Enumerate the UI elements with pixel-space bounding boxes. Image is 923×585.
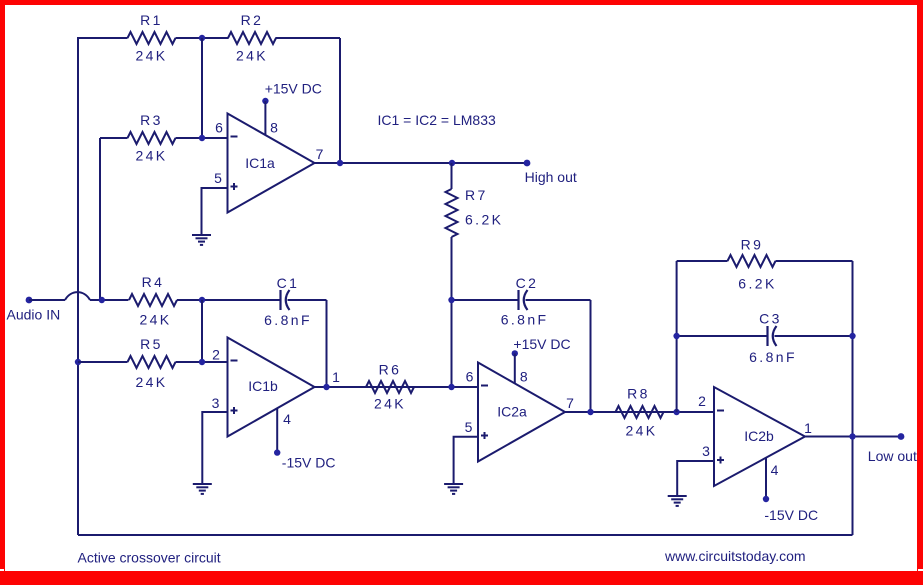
wire left rail xyxy=(77,38,79,535)
node Low out feedback junction xyxy=(849,433,855,439)
wire xyxy=(776,260,853,262)
svg-text:1: 1 xyxy=(804,420,812,436)
svg-text:24K: 24K xyxy=(135,48,167,64)
op-amp IC1a xyxy=(228,114,315,213)
wire xyxy=(451,237,453,387)
svg-text:IC1b: IC1b xyxy=(248,378,278,394)
resistor R3 xyxy=(128,132,176,144)
capacitor C3 xyxy=(766,326,768,346)
svg-text:IC2b: IC2b xyxy=(744,428,774,444)
svg-text:R6: R6 xyxy=(379,362,402,378)
capacitor C1 xyxy=(279,290,281,310)
resistor R9 xyxy=(728,255,776,267)
wire IC1b output to IC2a xyxy=(315,386,479,388)
svg-text:Audio IN: Audio IN xyxy=(7,307,61,323)
svg-text:8: 8 xyxy=(520,368,528,384)
resistor R7 xyxy=(446,189,458,237)
svg-text:6: 6 xyxy=(466,369,474,385)
resistor R2 xyxy=(228,32,276,44)
wire pin8 xyxy=(264,101,266,135)
svg-text:3: 3 xyxy=(702,443,710,459)
svg-text:-15V DC: -15V DC xyxy=(764,507,818,523)
svg-text:R9: R9 xyxy=(741,237,764,253)
svg-text:R5: R5 xyxy=(140,336,163,352)
resistor R5 xyxy=(128,356,176,368)
node Audio IN terminal xyxy=(26,297,33,304)
wire IC1a pin5 xyxy=(202,188,228,235)
wire xyxy=(201,38,203,138)
wire hop over left rail xyxy=(65,292,90,300)
node feedback to R5 xyxy=(75,359,81,365)
node IC1a inverting input xyxy=(199,135,205,141)
wire IC1b pin3 xyxy=(202,412,227,484)
svg-text:R3: R3 xyxy=(140,112,163,128)
node IC2b inverting input xyxy=(673,409,679,415)
wire xyxy=(451,163,453,189)
svg-text:Active crossover circuit: Active crossover circuit xyxy=(78,550,221,566)
wire xyxy=(676,261,678,412)
svg-text:+15V DC: +15V DC xyxy=(265,81,322,97)
wire xyxy=(339,38,341,163)
wire xyxy=(176,37,229,39)
svg-text:24K: 24K xyxy=(135,148,167,164)
svg-text:6.8nF: 6.8nF xyxy=(501,312,549,328)
wire xyxy=(77,37,128,39)
node R4 junction xyxy=(199,297,205,303)
resistor R1 xyxy=(128,32,176,44)
wire xyxy=(288,299,327,301)
wire xyxy=(176,137,228,139)
svg-text:24K: 24K xyxy=(625,423,657,439)
node R1-R2 junction xyxy=(199,35,205,41)
svg-text:R7: R7 xyxy=(465,187,488,203)
svg-text:8: 8 xyxy=(270,120,278,136)
wire bottom rail xyxy=(78,534,853,536)
node Low out terminal xyxy=(898,433,905,440)
ground IC1b pin3 xyxy=(193,484,212,494)
wire IC2a output xyxy=(565,411,714,413)
svg-text:+15V DC: +15V DC xyxy=(513,336,570,352)
wire xyxy=(100,137,128,139)
wire xyxy=(176,361,228,363)
op-amp IC2b xyxy=(714,387,805,486)
node C3 right junction xyxy=(849,333,855,339)
svg-text:24K: 24K xyxy=(135,374,167,390)
svg-text:24K: 24K xyxy=(139,312,171,328)
svg-text:5: 5 xyxy=(214,170,222,186)
svg-text:High out: High out xyxy=(525,169,577,185)
svg-text:IC1 = IC2 = LM833: IC1 = IC2 = LM833 xyxy=(378,112,497,128)
wire IC1a output xyxy=(315,162,528,164)
svg-text:2: 2 xyxy=(212,347,220,363)
wire xyxy=(326,300,328,387)
svg-text:3: 3 xyxy=(212,395,220,411)
wire xyxy=(677,335,768,337)
svg-text:6.2K: 6.2K xyxy=(738,276,776,292)
svg-text:R4: R4 xyxy=(142,274,165,290)
node C1 feedback junction xyxy=(323,384,329,390)
wire xyxy=(526,299,591,301)
node R7 junction xyxy=(449,160,455,166)
svg-text:R1: R1 xyxy=(140,12,163,28)
svg-text:6.2K: 6.2K xyxy=(465,212,503,228)
node High out terminal xyxy=(524,160,531,167)
node feedback junction xyxy=(337,160,343,166)
svg-text:-15V DC: -15V DC xyxy=(282,455,336,471)
svg-text:4: 4 xyxy=(771,462,779,478)
node -15V supply IC1b pin4 xyxy=(274,449,280,455)
wire IC2b pin4 xyxy=(765,458,767,499)
svg-text:1: 1 xyxy=(332,369,340,385)
resistor R8 xyxy=(616,406,664,418)
node R7-C2 junction xyxy=(448,297,454,303)
svg-text:C2: C2 xyxy=(516,275,539,291)
ground IC1a pin5 xyxy=(192,235,211,245)
ground IC2a pin5 xyxy=(444,484,463,494)
svg-text:R8: R8 xyxy=(627,386,650,402)
node +15V supply IC2a pin8 xyxy=(512,350,518,356)
node C2 feedback junction xyxy=(587,409,593,415)
wire IC2a pin5 xyxy=(454,437,478,484)
wire right rail xyxy=(852,261,854,535)
svg-text:5: 5 xyxy=(465,419,473,435)
wire xyxy=(590,300,592,412)
svg-text:2: 2 xyxy=(698,393,706,409)
wire xyxy=(452,299,519,301)
svg-text:Low out: Low out xyxy=(868,448,917,464)
svg-text:24K: 24K xyxy=(236,48,268,64)
resistor R4 xyxy=(129,294,177,306)
op-amp IC1b xyxy=(228,338,315,437)
wire xyxy=(201,300,203,362)
svg-text:7: 7 xyxy=(566,395,574,411)
svg-text:24K: 24K xyxy=(374,396,406,412)
svg-text:IC1a: IC1a xyxy=(245,155,275,171)
wire xyxy=(90,299,129,301)
wire xyxy=(78,361,128,363)
wire xyxy=(29,299,65,301)
svg-text:R2: R2 xyxy=(241,12,264,28)
node IC1b inverting input xyxy=(199,359,205,365)
wire xyxy=(775,335,853,337)
wire xyxy=(99,138,101,300)
svg-text:4: 4 xyxy=(283,411,291,427)
node input junction xyxy=(99,297,105,303)
capacitor C2 xyxy=(517,290,519,310)
wire IC2b output xyxy=(805,436,901,438)
node IC2a inverting input xyxy=(448,384,454,390)
op-amp IC2a xyxy=(478,363,565,462)
svg-text:IC2a: IC2a xyxy=(497,404,527,420)
ground IC2b pin3 xyxy=(668,496,687,506)
wire IC1b pin4 xyxy=(276,408,278,452)
node C3 left junction xyxy=(673,333,679,339)
svg-text:C1: C1 xyxy=(277,275,300,291)
wire IC2b pin3 xyxy=(677,461,714,496)
svg-text:6.8nF: 6.8nF xyxy=(264,312,312,328)
wire xyxy=(177,299,281,301)
svg-text:C3: C3 xyxy=(759,311,782,327)
wire xyxy=(677,260,728,262)
wire xyxy=(276,37,341,39)
node -15V supply IC2b pin4 xyxy=(763,496,769,502)
node +15V supply IC1a pin8 xyxy=(262,98,268,104)
resistor R6 xyxy=(366,381,414,393)
wire pin8 xyxy=(514,353,516,383)
svg-text:7: 7 xyxy=(316,146,324,162)
svg-text:www.circuitstoday.com: www.circuitstoday.com xyxy=(664,548,806,564)
svg-text:6: 6 xyxy=(215,120,223,136)
svg-text:6.8nF: 6.8nF xyxy=(749,349,797,365)
